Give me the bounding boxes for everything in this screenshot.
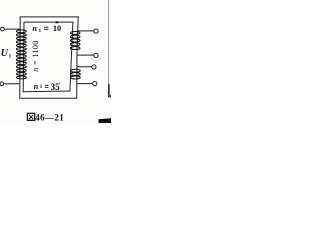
svg-text:n = 1100: n = 1100 (31, 40, 40, 71)
terminal circle lower-left (0, 82, 4, 86)
secondary winding lower coil (71, 69, 81, 79)
svg-text:1: 1 (9, 53, 12, 59)
terminal circle secondary 3 (92, 65, 96, 69)
terminal circle secondary 2 (94, 53, 98, 57)
wire lower-left terminal (4, 83, 20, 85)
page border right (108, 0, 110, 85)
page edge blob (110, 95, 111, 97)
terminal circle upper-left (1, 27, 5, 31)
wire secondary terminal 1 (77, 30, 94, 32)
svg-text:n: n (34, 82, 39, 91)
wire upper-left terminal (4, 28, 19, 30)
secondary winding upper coil (70, 31, 80, 49)
wire secondary terminal 2 (77, 54, 94, 56)
svg-text:35: 35 (51, 82, 61, 92)
terminal circle secondary 4 (93, 82, 97, 86)
wire secondary terminal 3 (77, 66, 92, 68)
page background (0, 0, 111, 123)
svg-text:10: 10 (53, 24, 61, 33)
core inner rectangle (23, 22, 73, 92)
caption kanji ZU glyph (27, 113, 34, 120)
svg-text:46—21: 46—21 (35, 112, 64, 122)
ink blot inner top edge (56, 21, 59, 23)
terminal circle secondary 1 (94, 29, 98, 33)
svg-text:n: n (32, 24, 37, 33)
wire secondary terminal 4 (77, 83, 93, 85)
core outer rectangle (20, 17, 78, 98)
page border dark segment (108, 84, 110, 98)
page corner blob (99, 118, 112, 123)
primary winding coil (16, 30, 26, 79)
